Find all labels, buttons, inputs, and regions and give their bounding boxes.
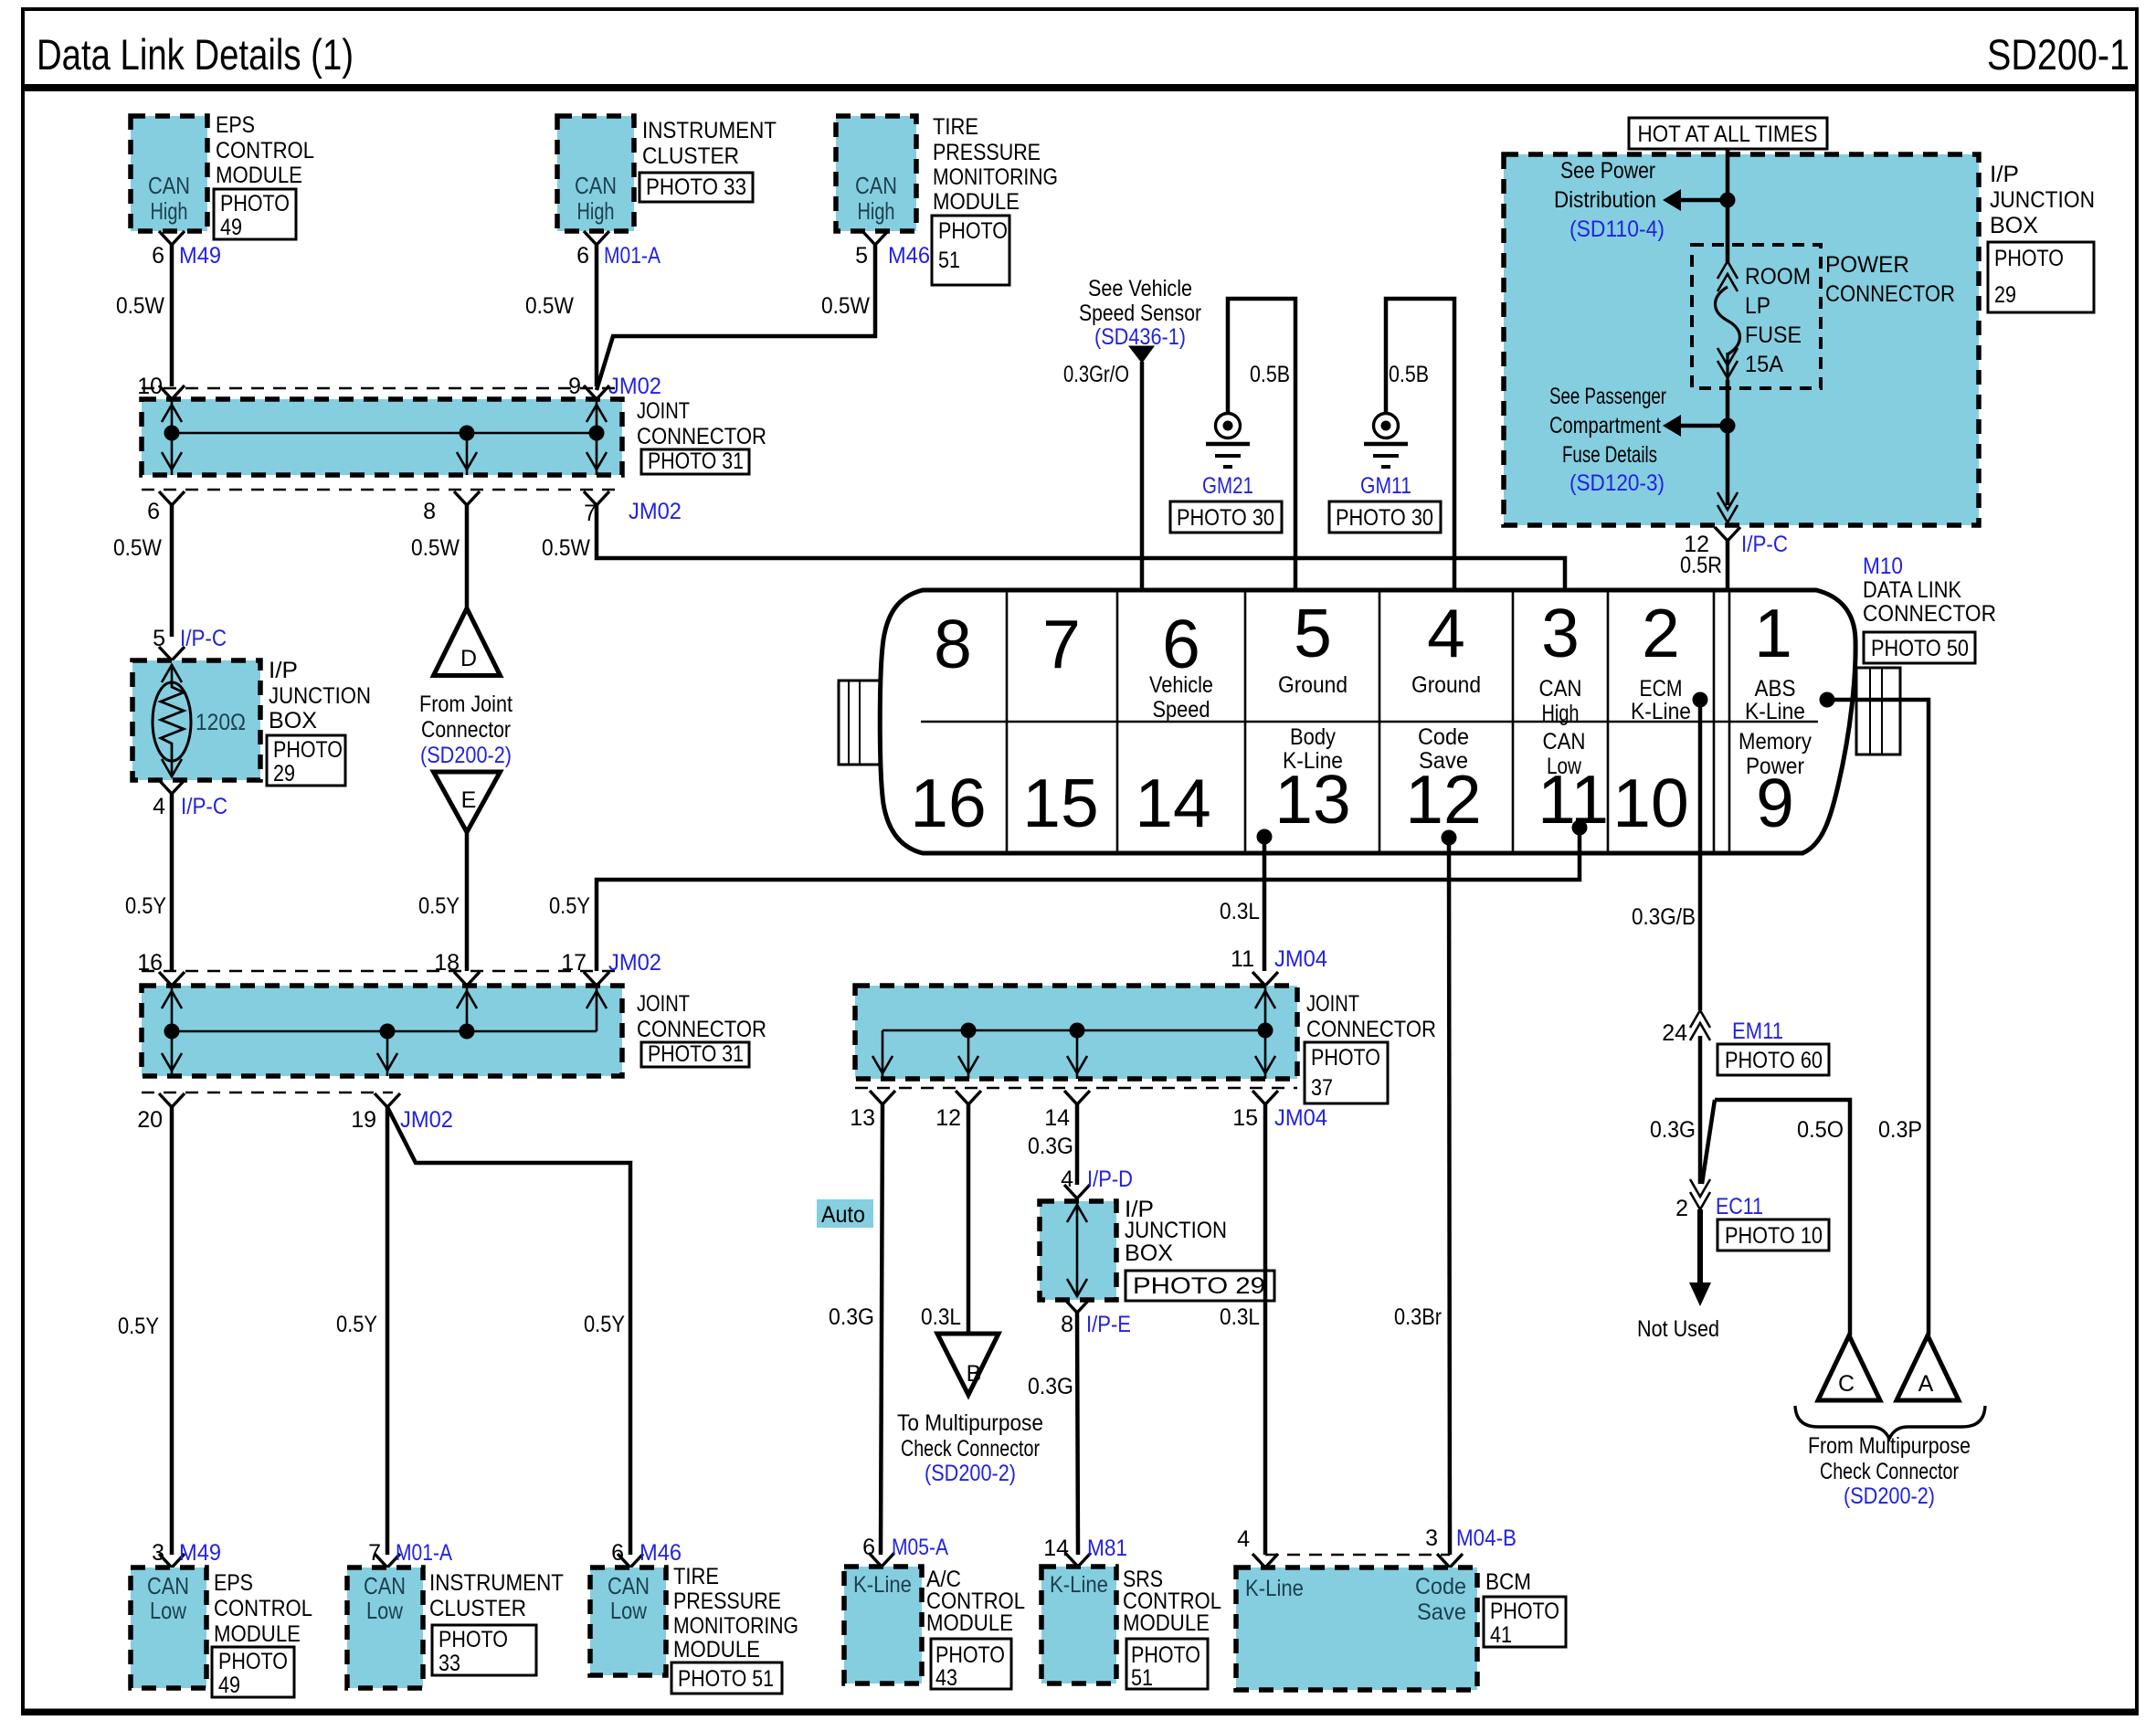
svg-text:PHOTO 60: PHOTO 60	[1725, 1048, 1823, 1073]
svg-text:7: 7	[1042, 606, 1081, 682]
JM02 pin 19 exit	[351, 1093, 453, 1133]
svg-text:6: 6	[147, 499, 160, 524]
svg-text:K-Line: K-Line	[1283, 748, 1343, 774]
wire battery feed into fuse	[1720, 149, 1736, 262]
svg-text:TIRE: TIRE	[933, 114, 978, 140]
svg-text:See Passenger: See Passenger	[1549, 384, 1666, 409]
connector pin 12 I/P-C	[1684, 527, 1788, 557]
svg-text:Ground: Ground	[1411, 672, 1481, 698]
DLC pin numbers top row	[934, 595, 1792, 682]
svg-text:51: 51	[1131, 1665, 1153, 1691]
svg-text:JUNCTION: JUNCTION	[1990, 187, 2095, 213]
svg-text:0.3L: 0.3L	[1220, 1304, 1260, 1330]
svg-text:GM11: GM11	[1360, 473, 1411, 499]
svg-text:0.5Y: 0.5Y	[118, 1314, 159, 1339]
svg-text:CONNECTOR: CONNECTOR	[1306, 1017, 1436, 1042]
svg-text:MODULE: MODULE	[1123, 1610, 1210, 1636]
I/P junction box power exit chevrons	[1717, 492, 1738, 522]
svg-text:CONTROL: CONTROL	[216, 138, 314, 164]
svg-text:Vehicle: Vehicle	[1149, 672, 1213, 698]
connector pin 7 M01-A	[368, 1540, 452, 1567]
svg-text:CONTROL: CONTROL	[214, 1596, 312, 1621]
svg-text:EPS: EPS	[216, 112, 255, 138]
svg-text:CAN: CAN	[855, 172, 897, 199]
svg-text:Low: Low	[1547, 754, 1582, 779]
wire 0.5O branch to triangle C	[1702, 1100, 1850, 1335]
svg-text:PHOTO 33: PHOTO 33	[646, 174, 746, 200]
svg-text:HOT AT ALL TIMES: HOT AT ALL TIMES	[1638, 121, 1818, 147]
wire 0.5W JM02-6 to IP junction box resistor	[113, 505, 172, 637]
svg-text:0.3L: 0.3L	[1220, 899, 1260, 924]
svg-text:2: 2	[1675, 1196, 1688, 1221]
svg-text:CAN: CAN	[364, 1572, 406, 1599]
svg-text:M49: M49	[179, 1540, 221, 1566]
svg-text:M46: M46	[639, 1540, 682, 1566]
connector pin 6 M49 (EPS top)	[152, 231, 221, 269]
svg-text:0.3Gr/O: 0.3Gr/O	[1063, 362, 1129, 387]
svg-text:LP: LP	[1745, 293, 1770, 319]
svg-text:0.3L: 0.3L	[921, 1304, 961, 1330]
wire 0.5Y JM02-19 to cluster CAN Low	[336, 1107, 387, 1555]
svg-text:M05-A: M05-A	[892, 1535, 948, 1560]
svg-text:JM02: JM02	[608, 950, 661, 976]
svg-text:0.3G: 0.3G	[1028, 1134, 1073, 1159]
JM02 pin 17 entry	[561, 950, 661, 986]
svg-text:0.5O: 0.5O	[1797, 1117, 1844, 1143]
JM04 pin 14 exit	[1044, 1091, 1090, 1131]
brace From Multipurpose Check Connector (SD200-2)	[1795, 1406, 1985, 1509]
DLC right latch tab	[1856, 668, 1900, 755]
module: BCM PHOTO 41	[1236, 1567, 1566, 1690]
svg-text:See Power: See Power	[1560, 158, 1655, 184]
svg-text:BOX: BOX	[269, 708, 317, 734]
svg-text:14: 14	[1044, 1105, 1070, 1131]
wire 0.5W JM02-8 to triangle D	[411, 505, 467, 608]
svg-text:BCM: BCM	[1485, 1569, 1531, 1595]
DLC pin function labels	[1149, 672, 1812, 779]
svg-text:M01-A: M01-A	[396, 1540, 452, 1566]
svg-text:A: A	[1918, 1371, 1934, 1397]
svg-text:K-Line: K-Line	[1631, 699, 1691, 724]
svg-text:0.5W: 0.5W	[113, 535, 162, 561]
svg-text:3: 3	[1425, 1525, 1438, 1551]
wire 0.5W TPMS CAN High to JM02 pin 9 junction	[597, 245, 875, 390]
svg-text:PHOTO: PHOTO	[935, 1642, 1005, 1668]
svg-text:Low: Low	[366, 1597, 403, 1624]
svg-text:15: 15	[1232, 1105, 1258, 1131]
connector pin 6 M01-A (cluster top)	[576, 231, 661, 269]
svg-text:29: 29	[273, 761, 295, 786]
svg-text:K-Line: K-Line	[1745, 699, 1805, 724]
svg-text:Body: Body	[1290, 724, 1336, 750]
JM02 pin 8 exit	[423, 491, 480, 524]
svg-text:10: 10	[1612, 765, 1688, 841]
svg-text:11: 11	[1231, 946, 1254, 972]
wire 0.3L JM04-12 to triangle B	[921, 1104, 968, 1334]
svg-text:To Multipurpose: To Multipurpose	[897, 1410, 1043, 1436]
svg-text:6: 6	[152, 243, 164, 269]
joint connector JM04 PHOTO 37	[855, 986, 1436, 1103]
svg-text:(SD110-4): (SD110-4)	[1569, 216, 1665, 242]
DLC cell dividers	[921, 590, 1818, 853]
svg-text:6: 6	[611, 1540, 624, 1566]
svg-text:D: D	[460, 646, 477, 671]
svg-text:Check Connector: Check Connector	[1820, 1459, 1959, 1484]
JM02 pin 18 entry	[434, 950, 480, 986]
JM02 lower internal bus with junctions	[162, 986, 607, 1076]
wire 0.5Y resistor to JM02 pin 16	[125, 794, 172, 971]
svg-text:E: E	[461, 787, 477, 813]
svg-text:PHOTO 29: PHOTO 29	[1133, 1273, 1265, 1299]
svg-text:JM04: JM04	[1274, 1105, 1327, 1131]
svg-text:PHOTO: PHOTO	[1131, 1642, 1200, 1668]
svg-text:PHOTO 31: PHOTO 31	[648, 449, 744, 474]
wire 0.5Y DLC pin11 CAN Low to JM02 pin 17	[549, 820, 1588, 972]
joint connector JM02 (lower) PHOTO 31	[142, 971, 766, 1092]
svg-text:BOX: BOX	[1990, 213, 2038, 238]
svg-text:M01-A: M01-A	[604, 243, 661, 269]
module: EPS CONTROL MODULE (CAN Low) PHOTO 49	[131, 1567, 312, 1698]
svg-text:20: 20	[137, 1107, 163, 1133]
wire 0.3Gr/O vehicle speed to DLC pin 6	[1063, 346, 1154, 612]
svg-text:PHOTO 30: PHOTO 30	[1336, 505, 1433, 531]
JM02 pin 6 exit	[147, 491, 185, 524]
DLC left latch tab	[839, 681, 881, 765]
svg-text:K-Line: K-Line	[853, 1572, 912, 1598]
svg-text:1: 1	[1754, 595, 1792, 671]
svg-text:4: 4	[1427, 595, 1465, 671]
JM02 internal bus with junctions	[162, 399, 607, 475]
connector pin 8 I/P-E	[1061, 1299, 1131, 1337]
JM04 internal bus with junctions	[872, 986, 1275, 1079]
arrow See Power Distribution (SD110-4)	[1554, 158, 1728, 242]
svg-text:High: High	[1542, 701, 1580, 726]
svg-text:33: 33	[439, 1651, 460, 1676]
svg-text:4: 4	[1061, 1166, 1073, 1192]
wire 0.3G EM11 to EC11	[1650, 1036, 1700, 1184]
note To Multipurpose Check Connector (SD200-2)	[897, 1410, 1043, 1486]
svg-text:TIRE: TIRE	[673, 1564, 719, 1589]
JM04 pin 15 exit	[1232, 1091, 1327, 1131]
svg-text:JUNCTION: JUNCTION	[269, 683, 371, 709]
label Auto (highlight)	[817, 1199, 873, 1228]
module: INSTRUMENT CLUSTER (CAN Low) PHOTO 33	[347, 1567, 564, 1688]
svg-text:0.3G: 0.3G	[1028, 1374, 1073, 1399]
svg-text:Not Used: Not Used	[1637, 1316, 1719, 1342]
svg-text:PHOTO: PHOTO	[218, 1649, 288, 1674]
wire 0.3L JM04-15 to BCM pin 4	[1220, 1104, 1265, 1555]
svg-text:Speed Sensor: Speed Sensor	[1079, 301, 1201, 326]
svg-text:I/P: I/P	[1990, 162, 2019, 187]
svg-text:SD200-1: SD200-1	[1987, 30, 2130, 79]
svg-text:Auto: Auto	[821, 1202, 865, 1228]
svg-text:17: 17	[561, 950, 587, 976]
connector pin 5 M46 (TPMS top)	[855, 231, 930, 269]
svg-text:18: 18	[434, 950, 460, 976]
svg-text:41: 41	[1490, 1622, 1512, 1648]
connector pin 11 JM04	[1231, 946, 1327, 986]
svg-text:PHOTO: PHOTO	[1994, 246, 2064, 271]
svg-text:6: 6	[576, 243, 589, 269]
svg-text:15: 15	[1022, 765, 1098, 841]
svg-text:JUNCTION: JUNCTION	[1125, 1218, 1227, 1243]
svg-text:JOINT: JOINT	[637, 398, 690, 424]
svg-text:51: 51	[938, 248, 960, 273]
svg-text:PHOTO: PHOTO	[1490, 1599, 1559, 1624]
svg-text:7: 7	[368, 1540, 381, 1566]
svg-text:0.5Y: 0.5Y	[418, 893, 460, 919]
svg-text:From Joint: From Joint	[419, 691, 513, 717]
svg-text:MODULE: MODULE	[673, 1637, 760, 1662]
svg-text:8: 8	[1061, 1312, 1073, 1337]
connector pin 6 M05-A	[862, 1535, 948, 1567]
svg-text:PHOTO: PHOTO	[938, 218, 1008, 244]
svg-text:Compartment: Compartment	[1549, 413, 1661, 438]
svg-text:14: 14	[1043, 1536, 1069, 1561]
svg-text:5: 5	[1294, 595, 1332, 671]
connector M10 DATA LINK CONNECTOR PHOTO 50 outline	[880, 554, 1996, 853]
svg-text:I/P-E: I/P-E	[1086, 1312, 1131, 1337]
svg-text:Connector: Connector	[421, 717, 511, 743]
svg-text:5: 5	[153, 626, 165, 651]
connector pin 14 M81	[1043, 1536, 1127, 1567]
JM04 pin 13 exit	[850, 1091, 895, 1131]
module: SRS CONTROL MODULE PHOTO 51	[1041, 1567, 1221, 1691]
svg-text:JM02: JM02	[608, 374, 661, 399]
svg-text:CAN: CAN	[1543, 729, 1586, 755]
connector pin 3 M49	[152, 1540, 221, 1567]
svg-text:4: 4	[153, 794, 165, 819]
svg-text:Save: Save	[1417, 1599, 1466, 1625]
svg-text:4: 4	[1237, 1526, 1250, 1552]
module: EPS CONTROL MODULE (CAN High) M49	[131, 112, 314, 240]
svg-text:JM04: JM04	[1274, 946, 1327, 972]
svg-text:BOX: BOX	[1125, 1240, 1173, 1266]
svg-text:0.5Y: 0.5Y	[336, 1312, 377, 1337]
svg-text:0.5B: 0.5B	[1250, 362, 1290, 387]
svg-text:Data Link Details (1): Data Link Details (1)	[37, 30, 354, 79]
svg-text:CLUSTER: CLUSTER	[642, 143, 739, 169]
svg-text:8: 8	[423, 499, 436, 524]
svg-text:EPS: EPS	[214, 1570, 253, 1596]
svg-text:PHOTO 50: PHOTO 50	[1871, 636, 1969, 661]
svg-text:I/P-C: I/P-C	[180, 626, 227, 651]
svg-text:3: 3	[1541, 595, 1580, 671]
svg-text:MODULE: MODULE	[214, 1621, 301, 1647]
wire 0.3G JM04-13 to A/C control module	[829, 1104, 882, 1555]
svg-text:GM21: GM21	[1202, 473, 1253, 499]
connector pin 4 I/P-D	[1061, 1166, 1133, 1198]
svg-text:Save: Save	[1419, 748, 1468, 774]
svg-text:0.3Br: 0.3Br	[1394, 1304, 1442, 1330]
JM02 pin 20 exit	[137, 1093, 185, 1133]
svg-text:I/P: I/P	[269, 658, 298, 683]
svg-text:M04-B: M04-B	[1456, 1525, 1517, 1551]
svg-text:(SD200-2): (SD200-2)	[925, 1461, 1016, 1486]
note See Vehicle Speed Sensor (SD436-1)	[1079, 276, 1201, 350]
svg-text:15A: 15A	[1745, 352, 1783, 377]
wire 0.3G I/P-E to SRS control module	[1028, 1313, 1078, 1555]
wire 0.5W EPS CAN High to JM02 pin 10	[116, 245, 172, 386]
svg-text:CAN: CAN	[575, 172, 617, 199]
svg-text:Ground: Ground	[1278, 672, 1347, 698]
svg-text:JM02: JM02	[400, 1107, 453, 1133]
wire 0.5Y JM02-19 branch to TPMS CAN Low	[387, 1107, 630, 1555]
off-page triangle B	[937, 1334, 999, 1395]
svg-text:0.5W: 0.5W	[821, 293, 870, 319]
svg-text:(SD200-2): (SD200-2)	[1844, 1483, 1935, 1509]
svg-text:JOINT: JOINT	[1306, 991, 1359, 1017]
svg-text:0.5W: 0.5W	[116, 293, 164, 319]
connector 24 EM11 PHOTO 60	[1662, 1010, 1829, 1075]
svg-text:0.5Y: 0.5Y	[549, 893, 590, 919]
wire 0.5Y JM02-20 to EPS CAN Low	[118, 1107, 172, 1555]
svg-text:0.3G: 0.3G	[1650, 1117, 1696, 1143]
svg-text:PHOTO: PHOTO	[439, 1627, 508, 1652]
wire to Not Used arrow	[1637, 1209, 1719, 1342]
fuse ROOM LP FUSE 15A in POWER CONNECTOR	[1692, 245, 1955, 388]
svg-text:0.5W: 0.5W	[542, 535, 590, 561]
svg-text:0.5R: 0.5R	[1680, 553, 1722, 578]
svg-text:I/P-D: I/P-D	[1087, 1166, 1133, 1192]
svg-text:PHOTO 31: PHOTO 31	[648, 1041, 744, 1067]
ground GM21 PHOTO 30	[1170, 299, 1304, 612]
svg-text:8: 8	[934, 606, 972, 682]
svg-text:CONNECTOR: CONNECTOR	[637, 424, 766, 449]
svg-text:MODULE: MODULE	[216, 163, 302, 188]
svg-text:CAN: CAN	[147, 1572, 189, 1599]
svg-text:PHOTO 10: PHOTO 10	[1725, 1223, 1823, 1249]
svg-text:High: High	[151, 197, 188, 225]
arrow See Passenger Compartment Fuse Details (SD120-3)	[1549, 384, 1728, 496]
module: INSTRUMENT CLUSTER (CAN High) M01-A	[557, 116, 777, 231]
off-page triangle E	[434, 772, 501, 832]
svg-text:PHOTO: PHOTO	[273, 737, 343, 763]
svg-text:PHOTO: PHOTO	[1311, 1045, 1380, 1071]
svg-text:PHOTO: PHOTO	[220, 191, 290, 216]
wire 0.3Br DLC pin12 Code Save to BCM pin 3	[1394, 830, 1457, 1556]
svg-text:ROOM: ROOM	[1745, 264, 1811, 290]
svg-text:Speed: Speed	[1153, 697, 1210, 723]
svg-text:DATA LINK: DATA LINK	[1863, 577, 1961, 603]
svg-text:CONNECTOR: CONNECTOR	[1863, 601, 1996, 627]
svg-text:M49: M49	[179, 243, 221, 269]
svg-text:0.3P: 0.3P	[1878, 1117, 1922, 1143]
svg-text:CLUSTER: CLUSTER	[429, 1596, 526, 1621]
svg-text:Memory: Memory	[1739, 729, 1812, 755]
svg-text:K-Line: K-Line	[1245, 1576, 1304, 1601]
svg-text:2: 2	[1642, 595, 1680, 671]
svg-text:12: 12	[935, 1105, 961, 1131]
svg-text:Code: Code	[1415, 1574, 1466, 1599]
svg-text:0.5Y: 0.5Y	[125, 893, 166, 919]
svg-text:MODULE: MODULE	[926, 1610, 1013, 1636]
svg-text:16: 16	[137, 950, 163, 976]
title Data Link Details (1)	[37, 30, 354, 79]
wire 0.5R to DLC memory power	[1680, 541, 1736, 817]
svg-text:13: 13	[850, 1105, 875, 1131]
svg-text:M46: M46	[888, 243, 930, 269]
svg-text:24: 24	[1662, 1020, 1687, 1046]
note From Joint Connector (SD200-2)	[419, 691, 513, 768]
connector 2 EC11 PHOTO 10	[1675, 1179, 1829, 1251]
svg-text:Power: Power	[1746, 754, 1804, 779]
svg-text:MONITORING: MONITORING	[933, 164, 1058, 190]
svg-text:19: 19	[351, 1107, 376, 1133]
svg-text:I/P-C: I/P-C	[181, 794, 227, 819]
svg-text:Check Connector: Check Connector	[901, 1436, 1040, 1462]
svg-text:Code: Code	[1418, 724, 1469, 750]
svg-text:High: High	[858, 197, 895, 225]
svg-text:From Multipurpose: From Multipurpose	[1808, 1433, 1971, 1459]
svg-text:I/P-C: I/P-C	[1741, 532, 1788, 557]
svg-text:PHOTO 51: PHOTO 51	[678, 1666, 774, 1692]
sheet number SD200-1	[1987, 30, 2130, 79]
off-page triangle A	[1897, 1335, 1959, 1400]
svg-text:See Vehicle: See Vehicle	[1088, 276, 1192, 301]
module: I/P JUNCTION BOX (power) PHOTO 29	[1504, 154, 2095, 525]
JM02 pin 7 exit	[584, 491, 682, 526]
svg-text:0.5B: 0.5B	[1389, 362, 1429, 387]
connector pin 4 I/P-C	[153, 780, 227, 819]
svg-text:Low: Low	[150, 1597, 186, 1624]
svg-text:PRESSURE: PRESSURE	[673, 1589, 781, 1614]
svg-text:6: 6	[1162, 606, 1200, 682]
svg-text:EM11: EM11	[1732, 1019, 1783, 1044]
svg-text:Distribution: Distribution	[1554, 187, 1656, 213]
svg-text:B: B	[967, 1361, 982, 1387]
svg-text:ABS: ABS	[1755, 676, 1796, 702]
svg-text:(SD120-3): (SD120-3)	[1569, 470, 1665, 496]
connector pins 4 / 3 M04-B	[1237, 1525, 1517, 1567]
svg-text:MODULE: MODULE	[933, 189, 1020, 215]
svg-text:JM02: JM02	[629, 499, 682, 524]
svg-text:120Ω: 120Ω	[196, 710, 246, 735]
svg-text:M81: M81	[1087, 1536, 1127, 1561]
svg-text:CAN: CAN	[1539, 676, 1582, 702]
wire 0.3G/B DLC pin2 ECM K-Line to EM11	[1632, 692, 1708, 1011]
wire 0.5Y triangle E to JM02 pin 18	[418, 832, 467, 971]
svg-text:CAN: CAN	[148, 172, 190, 199]
svg-text:FUSE: FUSE	[1745, 322, 1802, 348]
svg-text:29: 29	[1994, 282, 2016, 308]
svg-text:CONNECTOR: CONNECTOR	[637, 1017, 766, 1042]
svg-text:43: 43	[935, 1665, 957, 1691]
DLC pin numbers bottom row	[910, 761, 1794, 841]
wire 0.5W JM02-7 to DLC pin 3	[542, 505, 1573, 610]
svg-text:JOINT: JOINT	[637, 991, 690, 1017]
svg-text:K-Line: K-Line	[1050, 1572, 1108, 1598]
svg-text:5: 5	[855, 243, 868, 269]
svg-text:C: C	[1838, 1371, 1855, 1397]
svg-text:0.5W: 0.5W	[525, 293, 574, 319]
svg-text:0.5Y: 0.5Y	[584, 1312, 625, 1337]
svg-text:37: 37	[1311, 1075, 1333, 1101]
svg-text:0.3G: 0.3G	[829, 1304, 874, 1330]
svg-text:0.3G/B: 0.3G/B	[1632, 904, 1696, 930]
wire fuse output	[1720, 380, 1736, 505]
svg-text:M10: M10	[1863, 554, 1903, 579]
svg-text:ECM: ECM	[1640, 676, 1683, 702]
svg-text:PRESSURE: PRESSURE	[933, 140, 1041, 165]
wire 0.3L DLC pin13 Body K-Line to JM04 pin 11	[1220, 829, 1273, 972]
svg-text:49: 49	[220, 215, 242, 240]
JM02 pin 16 entry	[137, 950, 185, 986]
module: A/C CONTROL MODULE PHOTO 43	[844, 1567, 1025, 1691]
ground GM11 PHOTO 30	[1329, 299, 1463, 612]
off-page triangle D	[434, 608, 501, 676]
connector pin 6 M46	[611, 1540, 682, 1567]
